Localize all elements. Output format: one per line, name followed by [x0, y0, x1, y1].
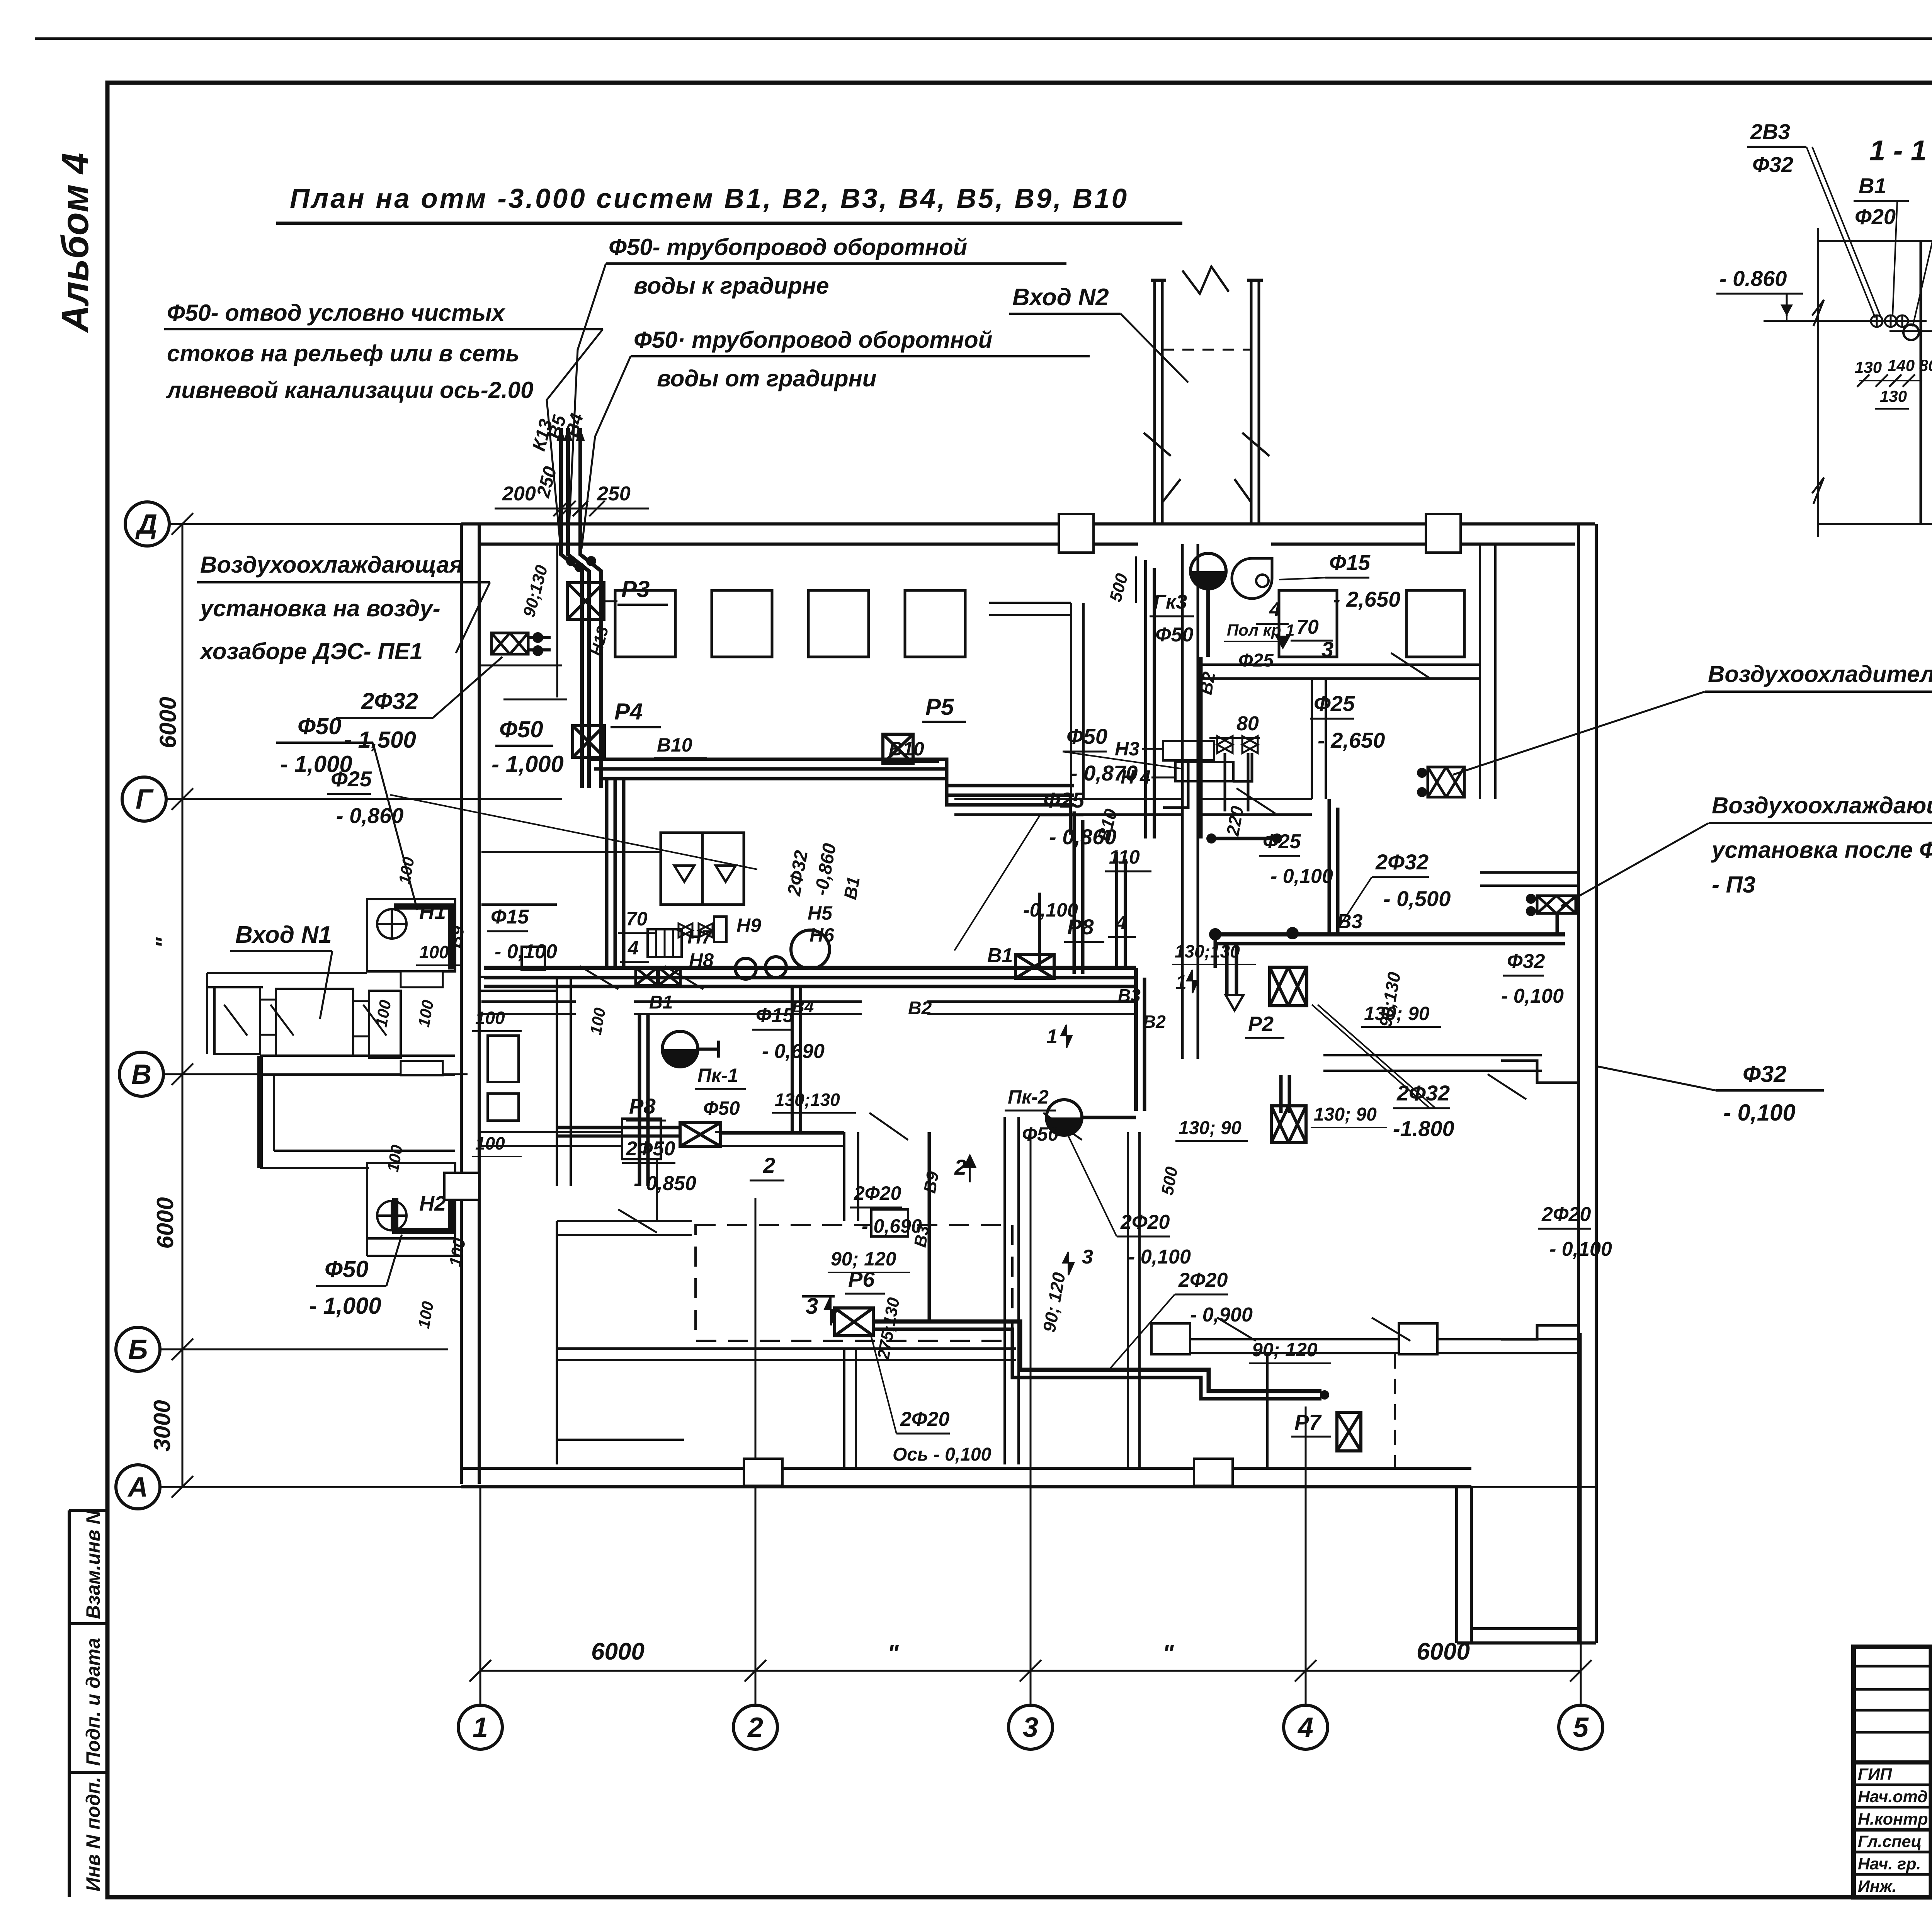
svg-text:3: 3 [1082, 1246, 1093, 1268]
svg-text:Ф50: Ф50 [499, 716, 543, 742]
dim 200 250 250 [495, 508, 649, 510]
svg-text:130; 90: 130; 90 [1179, 1118, 1242, 1138]
svg-text:6000: 6000 [155, 697, 181, 748]
svg-text:воды от градирни: воды от градирни [657, 366, 876, 391]
svg-text:1 - 1: 1 - 1 [1869, 134, 1927, 167]
svg-text:Р5: Р5 [925, 694, 954, 720]
svg-text:Ф25: Ф25 [1238, 650, 1274, 671]
PK-2 [1046, 1100, 1082, 1135]
svg-text:Гк3: Гк3 [1153, 591, 1187, 613]
wall x=2770 pair upper center [1070, 603, 1072, 799]
svg-text:2Ф32: 2Ф32 [361, 688, 418, 714]
svg-text:Ф15: Ф15 [756, 1004, 794, 1027]
svg-text:Ф20: Ф20 [1855, 204, 1896, 229]
svg-text:-0,100: -0,100 [1023, 899, 1078, 921]
pump room pipe segments [1115, 852, 1118, 968]
svg-text:130: 130 [1855, 358, 1882, 376]
svg-text:70: 70 [626, 908, 648, 930]
svg-text:- 0,850: - 0,850 [634, 1172, 696, 1195]
svg-text:Ф50· трубопровод оборотной: Ф50· трубопровод оборотной [634, 327, 992, 353]
valves pair above H3 [1217, 736, 1233, 753]
svg-text:2В3: 2В3 [1750, 119, 1790, 144]
svg-text:Воздухоохлаждающая: Воздухоохлаждающая [1712, 793, 1932, 818]
door/pier rectangles on walls [622, 1119, 661, 1159]
svg-text:130: 130 [1880, 387, 1907, 405]
entrance N1 lower room [273, 1075, 275, 1151]
equipment block with funnels (center-left) [661, 833, 744, 905]
svg-text:3: 3 [1321, 637, 1333, 662]
svg-text:80: 80 [1236, 713, 1259, 735]
svg-text:Ф50: Ф50 [703, 1097, 740, 1119]
P3 air unit right (zig) [1537, 896, 1576, 913]
left stamp boxes [68, 1510, 71, 1897]
axis 5 [1559, 1705, 1603, 1749]
svg-text:Ф50: Ф50 [298, 713, 342, 739]
svg-text:хозаборе ДЭС- ПЕ1: хозаборе ДЭС- ПЕ1 [199, 638, 423, 664]
svg-text:Ф50- отвод условно чистых: Ф50- отвод условно чистых [167, 300, 506, 326]
svg-text:Н7: Н7 [687, 926, 713, 948]
svg-text:Р4: Р4 [614, 699, 643, 724]
svg-text:В: В [131, 1059, 151, 1090]
svg-text:2: 2 [747, 1712, 763, 1743]
svg-text:90; 120: 90; 120 [1252, 1339, 1318, 1361]
svg-text:100: 100 [419, 942, 449, 962]
svg-text:Ф25: Ф25 [1043, 788, 1085, 812]
right wall notches [1501, 1061, 1578, 1083]
title block main [1854, 1647, 1932, 1897]
svg-text:Инв N подп.: Инв N подп. [82, 1777, 104, 1891]
svg-text:130;130: 130;130 [775, 1090, 840, 1110]
svg-text:1: 1 [473, 1712, 488, 1743]
svg-text:100: 100 [475, 1008, 505, 1028]
svg-text:2Ф20: 2Ф20 [900, 1408, 949, 1430]
svg-text:Р3: Р3 [621, 576, 650, 602]
svg-text:- 0.860: - 0.860 [1719, 266, 1787, 291]
svg-text:Воздухоохлаждающая: Воздухоохлаждающая [200, 552, 463, 578]
svg-text:4: 4 [628, 937, 639, 959]
svg-text:- 1,000: - 1,000 [492, 751, 564, 777]
pumps circles near B1 [735, 958, 756, 979]
svg-text:Вход N1: Вход N1 [235, 922, 332, 948]
svg-text:Пк-2: Пк-2 [1008, 1086, 1049, 1108]
svg-text:Ф50: Ф50 [325, 1256, 369, 1282]
svg-text:Ф50: Ф50 [1066, 724, 1107, 748]
svg-text:2Ф20: 2Ф20 [1120, 1211, 1170, 1233]
svg-text:3: 3 [1023, 1712, 1038, 1743]
svg-text:2Ф20: 2Ф20 [1541, 1203, 1591, 1226]
svg-text:В1: В1 [987, 944, 1013, 967]
svg-text:Р6: Р6 [848, 1267, 875, 1291]
door openings N1 [260, 1000, 276, 1035]
svg-text:ГИП: ГИП [1858, 1765, 1892, 1784]
axis А [116, 1465, 160, 1509]
svg-text:- 0,500: - 0,500 [1383, 886, 1451, 911]
svg-text:250: 250 [597, 483, 631, 505]
main run B1 across [484, 966, 1136, 970]
air cooler P1 symbol [1428, 767, 1464, 797]
svg-text:Нач. гр.: Нач. гр. [1858, 1855, 1921, 1873]
svg-text:Н1: Н1 [419, 900, 446, 923]
svg-text:2Ф20: 2Ф20 [1178, 1269, 1228, 1291]
svg-text:4: 4 [1297, 1712, 1313, 1743]
P6 valve + pipes [835, 1308, 873, 1336]
svg-text:Н6: Н6 [810, 924, 835, 946]
P8 valve [680, 1122, 721, 1146]
fixtures lower-left room [488, 1036, 519, 1082]
svg-text:Нач.отд: Нач.отд [1858, 1787, 1928, 1806]
bottom dimension line [480, 1670, 1581, 1672]
section 1-1 pipe circles [1871, 315, 1883, 327]
svg-text:70: 70 [1296, 616, 1319, 638]
entrance N2 break mark [1182, 267, 1229, 294]
left main wall (axis 1) [460, 524, 463, 1484]
valve P4 [573, 726, 604, 757]
2F50 riser pair [638, 1014, 641, 1186]
riser pair down to B1 run [1073, 811, 1076, 974]
svg-text:Р2: Р2 [1248, 1012, 1274, 1036]
svg-text:Ф50: Ф50 [1155, 624, 1194, 646]
entrance N1 middle wall [260, 1054, 455, 1057]
bottom wall [461, 1467, 1471, 1470]
symbol H2 [377, 1201, 406, 1230]
svg-text:100: 100 [475, 1133, 505, 1153]
svg-text:1: 1 [1175, 971, 1187, 994]
section 1-1 pipe level line [1764, 320, 1927, 322]
svg-text:130; 90: 130; 90 [1364, 1003, 1430, 1024]
svg-text:Б: Б [128, 1334, 148, 1365]
svg-text:Воздухоохладитель- П1: Воздухоохладитель- П1 [1708, 661, 1932, 687]
svg-text:2Ф20: 2Ф20 [854, 1182, 901, 1204]
svg-text:": " [151, 937, 177, 948]
svg-text:Р8: Р8 [629, 1094, 656, 1118]
axis 3 [1009, 1705, 1053, 1749]
svg-text:В1: В1 [1859, 173, 1886, 198]
svg-text:- 0,100: - 0,100 [1501, 985, 1564, 1007]
svg-text:- 0,870: - 0,870 [1070, 761, 1138, 785]
axis Г [122, 777, 166, 821]
svg-text:В9: В9 [446, 924, 468, 949]
svg-text:Гл.спец: Гл.спец [1858, 1832, 1922, 1851]
svg-text:- 0,860: - 0,860 [1049, 825, 1116, 849]
vertical 2f32 pipe pair at x~3440 [1328, 799, 1331, 934]
svg-text:- 0,900: - 0,900 [1190, 1304, 1253, 1326]
svg-text:Ф25: Ф25 [1314, 691, 1355, 716]
svg-text:- 1,500: - 1,500 [344, 727, 416, 753]
axis Д [125, 502, 169, 546]
P2 risers from B3 [1279, 1075, 1283, 1113]
svg-text:200: 200 [502, 483, 536, 505]
svg-text:В2: В2 [908, 998, 932, 1019]
interior walls [481, 851, 661, 853]
svg-text:-1.800: -1.800 [1393, 1116, 1454, 1141]
top wall axis D [461, 522, 1595, 526]
svg-text:В1: В1 [649, 992, 673, 1013]
svg-text:В1: В1 [840, 875, 864, 901]
pipe trio risers K13 B5 B4 [561, 428, 582, 788]
svg-text:3000: 3000 [149, 1400, 175, 1451]
svg-text:В9: В9 [920, 1170, 943, 1194]
svg-text:2Ф50: 2Ф50 [626, 1138, 675, 1160]
svg-text:6000: 6000 [152, 1197, 178, 1248]
PK-1 [662, 1031, 698, 1067]
svg-text:130;130: 130;130 [1175, 941, 1240, 961]
svg-text:- 2,650: - 2,650 [1333, 587, 1400, 611]
svg-text:- П3: - П3 [1712, 872, 1755, 898]
svg-text:- 0,100: - 0,100 [1549, 1238, 1612, 1260]
svg-text:2: 2 [763, 1153, 775, 1177]
dashed room P6 [696, 1225, 1012, 1341]
svg-text:установка после ФГ-70: установка после ФГ-70 [1711, 837, 1932, 863]
svg-text:Ф32: Ф32 [1743, 1061, 1787, 1087]
svg-text:Инж.: Инж. [1858, 1877, 1897, 1896]
svg-text:Ф15: Ф15 [1329, 550, 1371, 575]
H3 H4 equipment [1163, 741, 1214, 760]
svg-text:Ф32: Ф32 [1507, 950, 1545, 973]
svg-text:В3: В3 [1337, 910, 1363, 933]
annex room H2 (pump pit) [367, 1163, 455, 1238]
svg-text:Н9: Н9 [736, 915, 761, 936]
svg-text:Взам.инв N: Взам.инв N [82, 1510, 104, 1619]
svg-text:Р7: Р7 [1294, 1410, 1322, 1434]
svg-text:- 0,100: - 0,100 [1270, 865, 1333, 888]
svg-text:Ф25: Ф25 [331, 767, 372, 791]
annex room H1 (pump pit) [367, 899, 455, 971]
svg-text:Н8: Н8 [689, 949, 714, 971]
svg-text:2Ф32: 2Ф32 [1375, 850, 1429, 874]
svg-text:План на отм -3.000 систем В1,: План на отм -3.000 систем В1, В2, В3, В4… [290, 184, 1129, 214]
svg-text:В4: В4 [792, 997, 814, 1016]
svg-text:90; 120: 90; 120 [831, 1248, 896, 1270]
filter P2 [1270, 967, 1307, 1006]
svg-text:Н.контр: Н.контр [1858, 1810, 1928, 1828]
svg-text:Ф15: Ф15 [491, 906, 529, 928]
svg-text:Ф25: Ф25 [1263, 830, 1301, 853]
pipe bundle east from P4 [587, 759, 1074, 786]
svg-text:Ось - 0,100: Ось - 0,100 [893, 1444, 992, 1465]
axis 1 [458, 1705, 502, 1749]
svg-text:- 0,100: - 0,100 [1723, 1100, 1796, 1126]
riser pair below B3 junction [1225, 944, 1229, 995]
valve on B1 [636, 968, 657, 985]
svg-text:Н2: Н2 [419, 1192, 446, 1215]
vent unit at wall (2f32) [492, 633, 528, 654]
entrance N2 door openings [1144, 433, 1171, 456]
section 1-1 walls [1817, 228, 1819, 537]
svg-text:Альбом 4: Альбом 4 [54, 153, 96, 333]
symbol H1 [377, 909, 406, 939]
svg-text:- 0,860: - 0,860 [336, 803, 403, 828]
svg-text:": " [887, 1640, 899, 1667]
svg-text:Подп. и дата: Подп. и дата [82, 1638, 104, 1766]
pipes down from B1 junction to P2 [1134, 968, 1138, 1111]
svg-text:- 1,000: - 1,000 [309, 1293, 381, 1319]
GK-3 [1190, 553, 1226, 589]
svg-text:Ф50: Ф50 [1022, 1123, 1059, 1145]
svg-text:В2: В2 [1143, 1012, 1166, 1032]
svg-text:1: 1 [1046, 1026, 1058, 1048]
pipe trio down from P4 to B1 run [605, 779, 609, 968]
F15 riser pair x=2050 [791, 988, 794, 1132]
axis lines horizontal [169, 523, 1595, 525]
axis В [119, 1052, 163, 1096]
svg-text:Ф32: Ф32 [1752, 152, 1793, 177]
axis 4 [1284, 1705, 1328, 1749]
axis lines vertical (bottom) [480, 1486, 481, 1705]
P8 valve on B1 run [1015, 954, 1054, 978]
svg-text:130; 90: 130; 90 [1314, 1104, 1377, 1125]
small fan symbol entrance [1232, 558, 1272, 599]
svg-text:А: А [127, 1472, 148, 1503]
left dimension line verticals + ticks [182, 524, 184, 1487]
svg-text:Н5: Н5 [808, 902, 833, 924]
svg-text:4: 4 [1269, 599, 1281, 621]
svg-text:ливневой канализации ось-2.00: ливневой канализации ось-2.00 [166, 377, 534, 403]
south annex [1455, 1487, 1458, 1643]
H7 H8 grate [648, 929, 682, 957]
svg-text:": " [1162, 1640, 1174, 1667]
entrance N2 walls [1153, 280, 1156, 524]
svg-text:Г: Г [136, 784, 154, 815]
right wall [1577, 524, 1580, 1643]
svg-text:110: 110 [1109, 846, 1140, 868]
svg-text:6000: 6000 [591, 1638, 645, 1665]
pipe from B2 down [1209, 837, 1279, 840]
svg-text:Ф50- трубопровод оборотной: Ф50- трубопровод оборотной [609, 234, 967, 260]
H9 [714, 917, 726, 942]
svg-text:В2: В2 [1196, 670, 1219, 696]
axis Б [116, 1327, 160, 1371]
valve P3 [567, 583, 604, 619]
axis 2 [733, 1705, 777, 1749]
P7 valve [1337, 1412, 1361, 1451]
door opening marks on walls (diagonal strokes) [580, 966, 618, 989]
svg-text:Вход N2: Вход N2 [1012, 284, 1109, 311]
svg-text:- 0,100: - 0,100 [1128, 1246, 1191, 1268]
svg-text:Н3: Н3 [1115, 738, 1139, 760]
pipe B3 long run right [1215, 932, 1565, 937]
svg-text:Д: Д [135, 509, 157, 540]
white equipment rectangles along top band [615, 590, 675, 657]
svg-text:воды к градирне: воды к градирне [634, 273, 829, 299]
room 3 triangle [1275, 636, 1291, 650]
svg-text:стоков на рельеф или в сеть: стоков на рельеф или в сеть [167, 340, 519, 366]
svg-text:- 0,100: - 0,100 [495, 940, 557, 963]
entrance N1 walls [207, 972, 367, 974]
sheet outer trim lines [35, 37, 1932, 40]
svg-text:Пк-1: Пк-1 [697, 1065, 738, 1086]
svg-text:установка на возду-: установка на возду- [199, 595, 440, 621]
pipes west and east of P8 [557, 1126, 680, 1129]
svg-text:- 2,650: - 2,650 [1318, 728, 1385, 752]
svg-text:5: 5 [1573, 1712, 1589, 1743]
P5 valve [883, 734, 913, 764]
svg-text:140 80: 140 80 [1888, 356, 1932, 374]
svg-text:В10: В10 [657, 734, 692, 756]
